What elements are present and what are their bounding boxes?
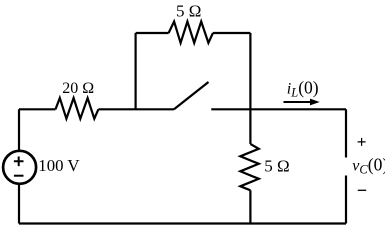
wire: right vertical upper segment — [345, 109, 347, 157]
wire: top branch upper right segment — [213, 32, 251, 34]
wire: right middle vertical leg down to resistor — [249, 33, 251, 144]
svg-text:5 Ω: 5 Ω — [264, 157, 289, 176]
wire: bottom horizontal — [19, 222, 346, 224]
wire: middle horizontal left segment with resistor — [19, 108, 56, 110]
wire: vertical leg below resistor — [249, 190, 251, 223]
svg-text:20 Ω: 20 Ω — [62, 80, 94, 97]
wire: left vertical above source — [18, 109, 20, 151]
voltage source minus sign — [14, 175, 24, 177]
resistor R 20ohm — [56, 98, 99, 119]
capacitor voltage plus sign — [358, 138, 366, 146]
svg-text:5 Ω: 5 Ω — [176, 2, 201, 21]
capacitor voltage minus sign — [358, 189, 366, 191]
svg-text:vC(0): vC(0) — [352, 154, 385, 176]
resistor R 5ohm (vertical) — [240, 144, 258, 190]
wire: middle horizontal to switch — [98, 108, 174, 110]
wire: middle horizontal right of switch — [211, 108, 346, 110]
wire: right vertical lower segment — [345, 176, 347, 224]
wire: top branch upper left segment — [136, 32, 169, 34]
svg-text:100 V: 100 V — [38, 156, 79, 175]
svg-text:iL(0): iL(0) — [287, 78, 319, 100]
wire: top branch left leg — [135, 33, 137, 109]
resistor R 5ohm (top) — [169, 22, 213, 43]
voltage source plus sign — [14, 157, 24, 167]
switch SW1 blade (open) — [174, 82, 209, 109]
wire: left vertical below source — [18, 184, 20, 224]
current arrow iL(0) — [284, 101, 312, 103]
voltage source V1 circle — [3, 151, 36, 184]
